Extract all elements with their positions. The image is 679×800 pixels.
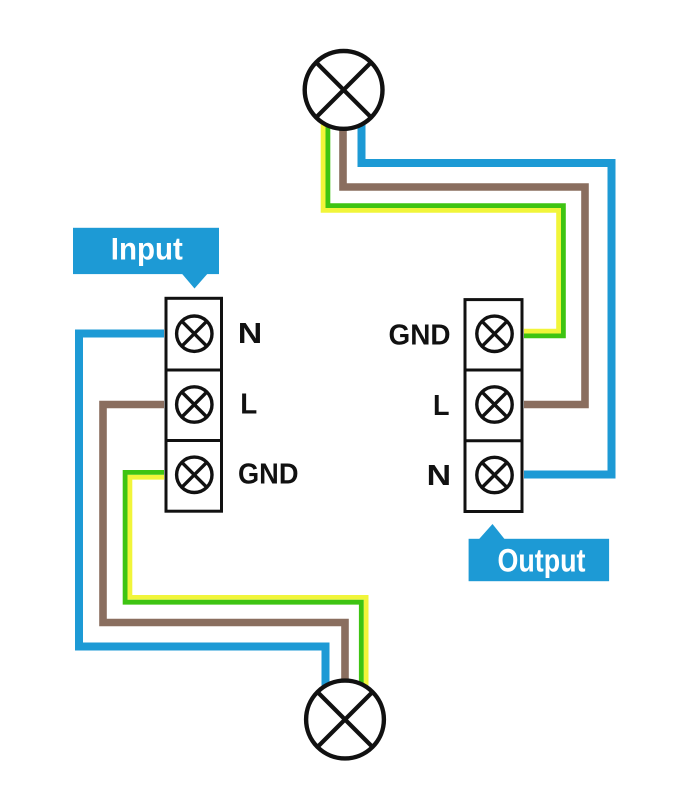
Input callout banner: [73, 228, 219, 289]
wire brown top: lamp1 L to output block L: [343, 110, 585, 405]
input terminal N screw: [177, 316, 212, 351]
wire blue top: lamp1 N to output block N: [362, 110, 612, 475]
wire earth top yellow stripe: [323, 110, 558, 331]
svg-text:Output: Output: [498, 543, 586, 579]
input terminal L screw: [177, 387, 212, 422]
svg-text:L: L: [433, 390, 450, 422]
output terminal N screw: [477, 457, 512, 492]
svg-text:Input: Input: [111, 231, 183, 267]
wire earth bottom green stripe: [125, 472, 361, 700]
input terminal GND screw: [177, 457, 212, 492]
output terminal L screw: [477, 387, 512, 422]
output terminal GND screw: [477, 316, 512, 351]
output terminal block body: [465, 300, 522, 512]
input terminal block body: [166, 298, 222, 511]
wire blue bottom: input block N to lamp2: [79, 334, 326, 701]
svg-text:N: N: [427, 460, 452, 492]
Output callout banner: [469, 524, 609, 581]
lamp top: [305, 51, 383, 129]
wire earth bottom yellow stripe: [130, 477, 366, 700]
lamp bottom: [306, 681, 384, 759]
svg-text:GND: GND: [238, 459, 299, 491]
svg-text:L: L: [240, 388, 257, 420]
wire brown bottom: input block L to lamp2: [103, 405, 345, 701]
svg-text:N: N: [238, 318, 263, 350]
svg-text:GND: GND: [389, 320, 451, 352]
wire earth top green stripe: [328, 110, 564, 336]
